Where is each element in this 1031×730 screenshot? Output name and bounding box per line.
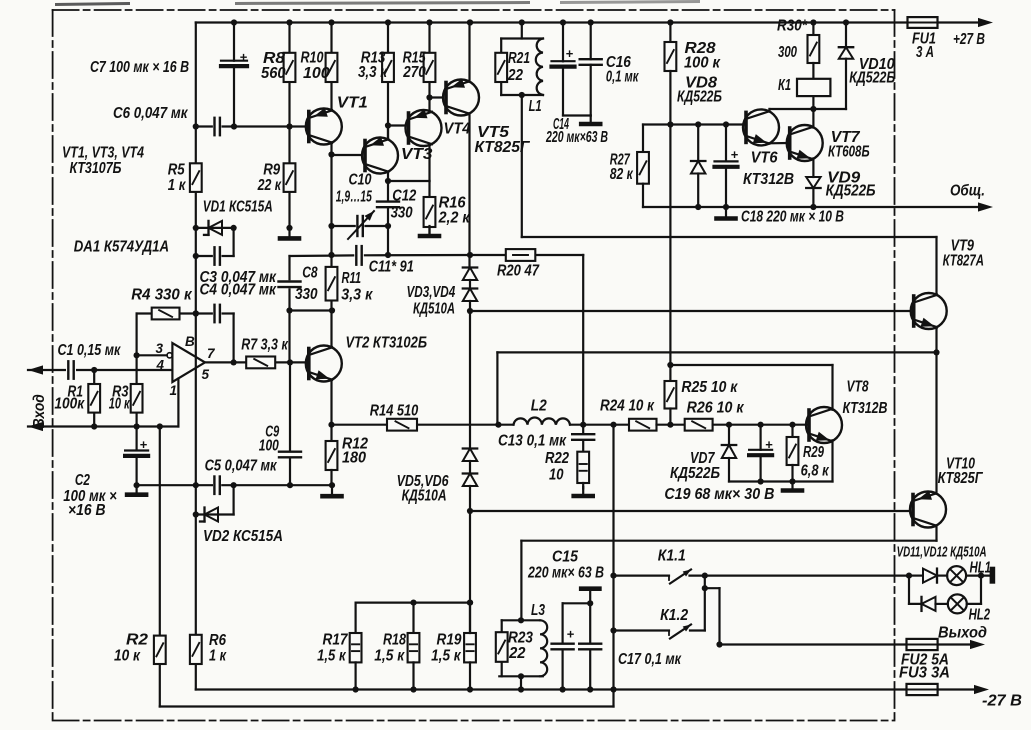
svg-text:+: + <box>140 437 148 452</box>
svg-text:2,2 к: 2,2 к <box>438 210 471 227</box>
svg-text:FU3 3А: FU3 3А <box>899 665 950 682</box>
svg-text:С7 100 мк × 16 В: С7 100 мк × 16 В <box>90 59 189 76</box>
svg-text:VD11,VD12 КД510А: VD11,VD12 КД510А <box>897 545 987 561</box>
svg-text:С15: С15 <box>552 549 578 566</box>
svg-text:КТ608Б: КТ608Б <box>828 144 870 161</box>
svg-text:С8: С8 <box>302 265 318 282</box>
svg-text:R26 10 к: R26 10 к <box>687 399 745 416</box>
svg-text:КТ825Г: КТ825Г <box>938 470 984 487</box>
svg-text:С12: С12 <box>392 188 416 205</box>
svg-text:1,9…15: 1,9…15 <box>336 189 372 206</box>
svg-text:+: + <box>567 626 575 641</box>
svg-text:1: 1 <box>170 383 178 398</box>
svg-text:HL1: HL1 <box>970 560 992 577</box>
svg-text:HL2: HL2 <box>969 607 991 624</box>
svg-text:Выход: Выход <box>938 625 987 642</box>
svg-text:VD3,VD4: VD3,VD4 <box>407 284 456 301</box>
svg-text:330: 330 <box>295 286 318 303</box>
svg-text:КТ827А: КТ827А <box>943 253 984 270</box>
svg-text:10 к: 10 к <box>114 648 141 665</box>
svg-text:КД522Б: КД522Б <box>826 183 876 200</box>
svg-text:220 мк× 63 В: 220 мк× 63 В <box>527 565 604 582</box>
svg-text:1,5 к: 1,5 к <box>317 648 346 665</box>
svg-text:3 А: 3 А <box>916 44 934 61</box>
svg-text:КД522Б: КД522Б <box>670 465 720 482</box>
svg-text:22: 22 <box>507 67 523 84</box>
svg-text:С1 0,15 мк: С1 0,15 мк <box>58 342 122 359</box>
svg-text:L2: L2 <box>531 398 547 415</box>
svg-text:270: 270 <box>402 64 426 81</box>
svg-text:R4 330 к: R4 330 к <box>131 287 192 304</box>
svg-text:L1: L1 <box>529 98 542 115</box>
svg-text:С18 220 мк × 10 В: С18 220 мк × 10 В <box>741 209 844 226</box>
svg-text:4: 4 <box>156 358 165 373</box>
svg-text:КТ312В: КТ312В <box>743 171 794 188</box>
svg-text:R5: R5 <box>168 162 185 179</box>
svg-text:6,8 к: 6,8 к <box>801 463 830 480</box>
svg-text:VT1, VT3, VT4: VT1, VT3, VT4 <box>62 145 144 162</box>
svg-text:R21: R21 <box>508 50 530 67</box>
svg-text:1,5 к: 1,5 к <box>374 648 405 665</box>
svg-text:VT1: VT1 <box>337 95 368 112</box>
svg-text:С17 0,1 мк: С17 0,1 мк <box>618 651 682 668</box>
svg-text:VD2 КС515А: VD2 КС515А <box>203 528 283 545</box>
svg-text:1 к: 1 к <box>209 648 227 665</box>
svg-text:R22: R22 <box>545 450 569 467</box>
svg-text:22: 22 <box>508 645 526 662</box>
svg-text:Общ.: Общ. <box>950 183 985 200</box>
svg-text:R29: R29 <box>803 444 824 461</box>
svg-text:R30*: R30* <box>777 18 808 35</box>
svg-text:+: + <box>731 147 739 162</box>
svg-text:100 к: 100 к <box>684 55 721 72</box>
svg-text:3: 3 <box>156 341 164 356</box>
svg-text:1,5 к: 1,5 к <box>431 648 462 665</box>
svg-text:R14 510: R14 510 <box>370 403 419 420</box>
svg-text:С5 0,047 мк: С5 0,047 мк <box>205 458 278 475</box>
svg-text:560: 560 <box>261 65 286 82</box>
svg-text:КД522Б: КД522Б <box>849 70 895 87</box>
svg-text:КД510А: КД510А <box>413 301 455 318</box>
svg-text:С19 68 мк× 30 В: С19 68 мк× 30 В <box>664 486 774 503</box>
svg-text:В: В <box>185 334 195 349</box>
svg-text:С4 0,047 мк: С4 0,047 мк <box>200 282 278 299</box>
svg-text:100: 100 <box>303 65 330 82</box>
svg-text:22 к: 22 к <box>257 177 282 194</box>
svg-text:К1: К1 <box>778 77 791 94</box>
svg-text:К1.2: К1.2 <box>660 607 688 624</box>
svg-text:R11: R11 <box>342 270 362 287</box>
svg-text:К1.1: К1.1 <box>658 548 686 565</box>
svg-text:L3: L3 <box>531 602 545 619</box>
svg-text:100: 100 <box>259 438 279 455</box>
svg-text:3,3 к: 3,3 к <box>341 287 373 304</box>
svg-text:330: 330 <box>391 205 413 222</box>
svg-text:КД510А: КД510А <box>402 488 447 505</box>
svg-text:VT3: VT3 <box>401 146 433 163</box>
svg-text:+: + <box>240 49 248 64</box>
svg-text:R6: R6 <box>209 632 226 649</box>
svg-text:5: 5 <box>202 367 210 382</box>
svg-text:R7 3,3 к: R7 3,3 к <box>241 337 289 354</box>
svg-text:DA1 К574УД1А: DA1 К574УД1А <box>74 239 169 256</box>
svg-text:VT6: VT6 <box>751 150 778 167</box>
svg-text:КТ3107Б: КТ3107Б <box>70 160 122 177</box>
svg-text:R2: R2 <box>126 632 148 649</box>
svg-text:Вход: Вход <box>31 394 48 428</box>
svg-text:×16 В: ×16 В <box>68 502 106 519</box>
svg-text:R20 47: R20 47 <box>497 263 540 280</box>
svg-text:R23: R23 <box>508 630 533 647</box>
svg-text:VT2 КТ3102Б: VT2 КТ3102Б <box>346 335 428 352</box>
svg-text:VD1 КС515А: VD1 КС515А <box>203 199 273 216</box>
svg-text:220 мк×63 В: 220 мк×63 В <box>545 129 608 146</box>
svg-text:82 к: 82 к <box>610 166 634 183</box>
svg-text:300: 300 <box>778 44 797 61</box>
svg-text:+27 В: +27 В <box>953 31 985 48</box>
svg-text:R18: R18 <box>383 632 406 649</box>
svg-text:С13 0,1 мк: С13 0,1 мк <box>498 433 567 450</box>
svg-text:0,1 мк: 0,1 мк <box>606 69 639 86</box>
svg-text:VT4: VT4 <box>444 121 471 138</box>
svg-text:С2: С2 <box>75 472 90 489</box>
svg-text:R25 10 к: R25 10 к <box>681 379 738 396</box>
svg-text:С6 0,047 мк: С6 0,047 мк <box>113 105 188 122</box>
svg-text:КТ825Г: КТ825Г <box>475 139 531 156</box>
svg-text:10 к: 10 к <box>109 396 131 413</box>
svg-text:R10: R10 <box>301 50 324 67</box>
svg-text:R24 10 к: R24 10 к <box>600 398 655 415</box>
svg-text:+: + <box>566 46 574 61</box>
svg-text:-27 В: -27 В <box>982 693 1022 710</box>
svg-text:КД522Б: КД522Б <box>677 89 722 106</box>
svg-text:R19: R19 <box>437 632 462 649</box>
svg-text:+: + <box>765 437 773 452</box>
svg-text:180: 180 <box>342 450 366 467</box>
svg-text:100к: 100к <box>54 396 85 413</box>
svg-text:VT8: VT8 <box>847 379 869 396</box>
svg-text:R17: R17 <box>323 632 349 649</box>
svg-text:С11* 91: С11* 91 <box>369 259 414 276</box>
svg-text:3,3 к: 3,3 к <box>358 64 388 81</box>
svg-text:10: 10 <box>549 467 564 484</box>
svg-text:R9: R9 <box>263 162 280 179</box>
svg-text:С10: С10 <box>349 172 372 189</box>
svg-text:КТ312В: КТ312В <box>843 400 888 417</box>
svg-text:1 к: 1 к <box>168 177 187 194</box>
